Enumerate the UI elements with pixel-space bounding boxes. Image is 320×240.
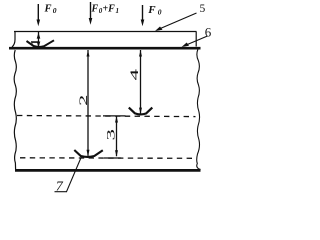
svg-text:F0: F0 — [147, 4, 162, 17]
support cup under plate — [27, 40, 55, 47]
svg-text:F0+F1: F0+F1 — [91, 4, 119, 16]
force arrow F0 right — [141, 5, 145, 26]
body left wavy break line — [14, 50, 16, 170]
svg-text:3: 3 — [104, 129, 117, 141]
workpiece bottom thick line — [15, 169, 201, 172]
label 6 with leader — [182, 24, 212, 47]
svg-text:F0: F0 — [44, 4, 57, 16]
clamping plate item 5 outline — [12, 32, 197, 48]
dashed middle plane line (upper) — [17, 116, 196, 117]
workpiece top thick line — [9, 47, 201, 50]
dimension 1 (plate thickness) — [37, 32, 41, 48]
dimension 4 line — [139, 50, 142, 115]
support cup at upper dashed line — [129, 108, 153, 115]
dimension 2 line — [87, 50, 90, 156]
svg-text:5: 5 — [200, 3, 206, 15]
dashed bottom plane line (lower) — [20, 157, 196, 160]
support cup at lower dashed line, item 7 — [74, 150, 103, 157]
label 5 with leader — [155, 3, 206, 31]
force arrow F0 left — [37, 4, 41, 26]
body right wavy break line — [197, 49, 201, 169]
svg-text:2: 2 — [77, 95, 90, 106]
force arrow F0+F1 middle — [89, 2, 93, 25]
svg-text:4: 4 — [128, 69, 141, 81]
label 7 with leader — [55, 157, 82, 195]
dimension 3 line — [115, 116, 118, 156]
